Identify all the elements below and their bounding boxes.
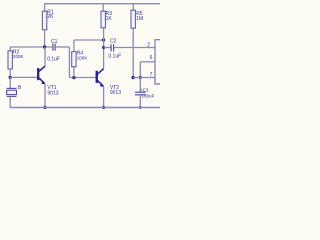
svg-text:1K: 1K (106, 16, 113, 22)
svg-text:9013: 9013 (110, 90, 121, 96)
wire R1 bottom to node A (44, 30, 46, 47)
wire R4 top leg (73, 40, 75, 52)
transistor VT2 (96, 69, 104, 87)
svg-text:2K: 2K (47, 14, 54, 20)
capacitor C1 (53, 44, 55, 51)
ground bottom rail (10, 107, 160, 109)
resistor R3 (101, 11, 105, 28)
capacitor C2 (111, 44, 114, 51)
junction dot R4 wire / R3 leg (102, 38, 105, 41)
wire C2 left (104, 47, 111, 49)
svg-text:0.1uF: 0.1uF (108, 54, 121, 60)
svg-text:1M: 1M (136, 16, 143, 22)
svg-text:200K: 200K (13, 54, 25, 59)
svg-text:B: B (18, 85, 22, 91)
wire mic to ground rail (9, 96, 11, 107)
wire base node down to mic (9, 77, 11, 88)
pin 7 wire (133, 77, 155, 79)
VT2 emitter rail junction dot (102, 106, 105, 109)
svg-text:7: 7 (150, 72, 153, 78)
wire VT1 collector up to node A (44, 47, 46, 66)
svg-text:C1: C1 (51, 39, 58, 45)
wire R2 bottom to base node (9, 69, 11, 77)
resistor R2 (8, 51, 12, 69)
pin6 drop junction dot (139, 76, 142, 79)
wire C3 top (139, 78, 141, 93)
wire C1 right to corner (56, 46, 70, 48)
wire R4 bottom leg (73, 67, 75, 78)
wire C3 bottom to rail (139, 95, 141, 108)
svg-text:C2: C2 (110, 38, 117, 44)
wire R5 top leg (132, 4, 134, 11)
svg-text:+C3: +C3 (140, 87, 149, 92)
wire VT2 emitter to rail (103, 86, 105, 107)
resistor R1 (42, 11, 46, 30)
wire VT1 emitter to rail (44, 84, 46, 108)
wire base node to VT1 base (10, 76, 37, 78)
wire left corner down to R2 (9, 46, 11, 50)
base node junction dot (9, 76, 12, 79)
wire R1 top leg (44, 4, 46, 12)
R5 junction dot (131, 76, 135, 80)
pin 6 wire (140, 61, 155, 63)
wire corner to VT2 base (69, 77, 95, 79)
wire R3 top leg (102, 4, 104, 12)
VT1 emitter rail junction dot (43, 106, 46, 109)
svg-text:9013: 9013 (47, 90, 58, 96)
C3 rail junction dot (139, 106, 142, 109)
R4 bottom junction dot (72, 76, 75, 79)
svg-text:0.1uF: 0.1uF (47, 57, 60, 63)
capacitor C3 electrolytic (135, 92, 146, 95)
svg-text:100uF: 100uF (141, 94, 154, 99)
microphone B piezo element (7, 88, 17, 96)
wire C2 right to pin 2 (114, 47, 155, 49)
svg-text:2: 2 (147, 42, 150, 48)
node A junction dot (43, 45, 46, 48)
wire node A horizontal (10, 46, 52, 48)
wire R5 bottom to pin7 line (132, 28, 134, 77)
wire R4 top to collector line (74, 39, 104, 41)
wire pin6 drop (139, 62, 141, 78)
VCC top rail (44, 3, 160, 5)
wire corner down (68, 47, 70, 78)
resistor R5 (131, 10, 135, 28)
resistor R4 (72, 52, 76, 67)
IC box edge (155, 40, 160, 84)
svg-text:100K: 100K (77, 55, 89, 60)
junction dot C2 tap (102, 46, 105, 49)
transistor VT1 (37, 66, 45, 84)
svg-text:6: 6 (150, 55, 153, 61)
wire R3 bottom to VT2 collector (103, 28, 105, 68)
